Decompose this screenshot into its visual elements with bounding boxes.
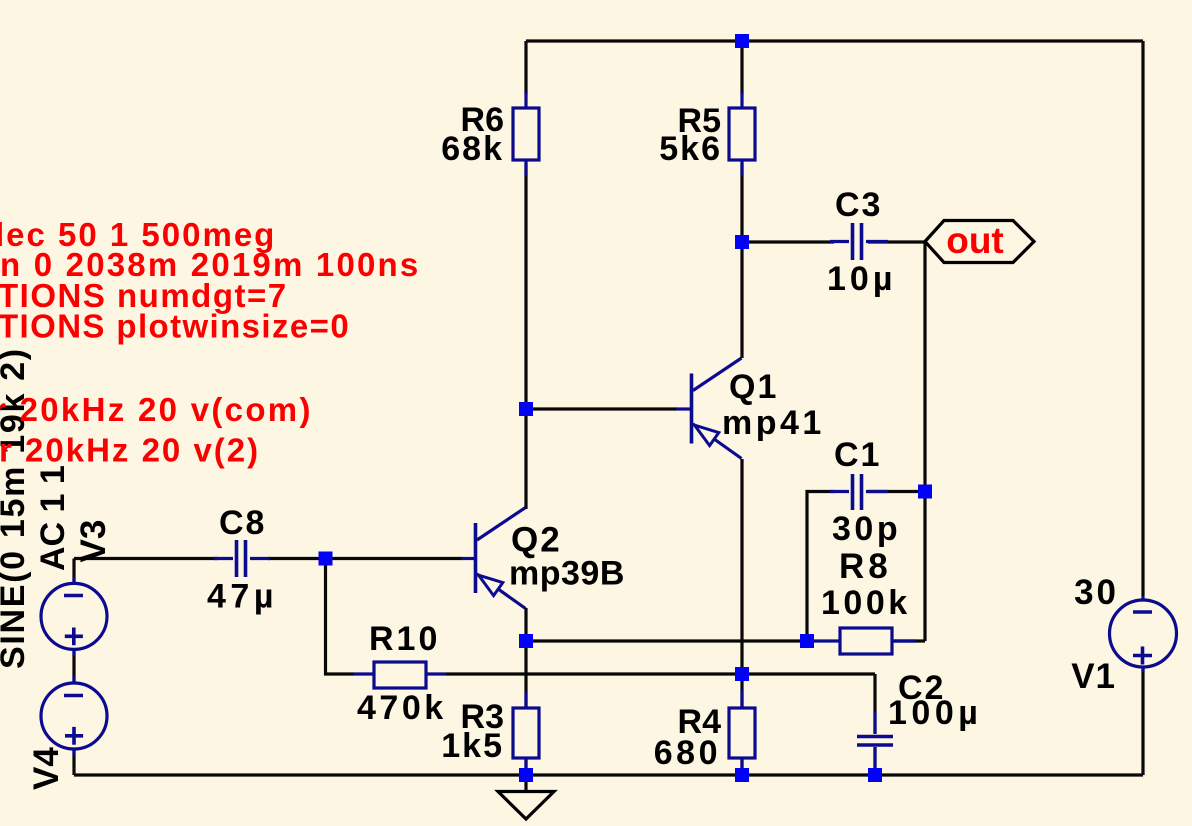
svg-text:r 20kHz 20 v(com): r 20kHz 20 v(com) [0, 391, 313, 428]
voltage source V1 [1110, 596, 1177, 672]
voltage source V3 [41, 577, 107, 656]
wire R6 top stub [524, 41, 527, 95]
svg-text:Q1: Q1 [729, 368, 778, 406]
node junction C1 right [918, 485, 932, 499]
wire R3 top [524, 641, 527, 708]
node junction top rail R5 [735, 34, 749, 48]
svg-text:AC 1 1: AC 1 1 [34, 465, 72, 571]
wire C1 right [868, 490, 925, 493]
capacitor C3 [830, 223, 888, 260]
svg-text:100k: 100k [821, 584, 911, 622]
wire Q2 emitter drop [524, 608, 527, 641]
svg-text:10µ: 10µ [827, 260, 896, 298]
svg-text:C3: C3 [835, 186, 882, 224]
node junction R6 base B1 [519, 402, 533, 416]
svg-text:1k5: 1k5 [441, 727, 504, 765]
wire ground stub [524, 775, 527, 791]
wire V3 top corner [72, 559, 75, 585]
node junction C2 ground [868, 768, 882, 782]
svg-text:5k6: 5k6 [659, 130, 722, 168]
voltage source V4 [41, 676, 107, 756]
resistor R8 [812, 628, 916, 654]
svg-text:TIONS plotwinsize=0: TIONS plotwinsize=0 [0, 308, 350, 345]
wire R4 top stub [740, 674, 743, 708]
port out [925, 220, 1034, 263]
capacitor C2 [857, 712, 893, 770]
svg-text:V1: V1 [1071, 657, 1116, 696]
wire R5 bottom to node C3row [740, 163, 743, 242]
wire Q1 emitter drop [740, 459, 743, 674]
resistor R6 [513, 92, 539, 176]
wire V4 to bottom rail [72, 748, 75, 775]
wire C8 node down to R10 row [326, 559, 355, 675]
node junction R4 ground [735, 768, 749, 782]
resistor R10 [354, 662, 446, 688]
resistor R4 [729, 690, 755, 772]
wire Q2 collector rise [524, 409, 527, 509]
wire top rail [526, 39, 1143, 42]
wire C2 bottom [873, 747, 876, 775]
wire V3 to V4 [72, 649, 75, 684]
node junction C8-base [319, 552, 333, 566]
svg-text:680: 680 [654, 734, 721, 772]
wire Q2 base from C8 node [326, 557, 463, 560]
resistor R5 [729, 92, 755, 176]
svg-text:100µ: 100µ [888, 694, 982, 732]
resistor R3 [513, 692, 539, 772]
wire R8 right [894, 639, 925, 642]
svg-text:470k: 470k [357, 689, 447, 727]
svg-text:mp39B: mp39B [509, 555, 625, 593]
svg-text:mp41: mp41 [722, 404, 825, 442]
wire R6 bottom to node B1 [524, 163, 527, 409]
wire R3 bottom [524, 758, 527, 775]
svg-text:68k: 68k [441, 130, 504, 168]
svg-text:r 20kHz 20 v(2): r 20kHz 20 v(2) [0, 432, 260, 469]
wire source to C8 [74, 557, 218, 560]
wire V1 top drop [1141, 41, 1144, 596]
svg-text:R10: R10 [369, 620, 440, 658]
wire R5 top stub [740, 41, 743, 95]
wire C3 right to out port [868, 240, 924, 243]
wire Q1 collector drop [740, 242, 743, 358]
svg-text:30p: 30p [832, 510, 901, 548]
wire C8 to node [268, 557, 326, 560]
svg-text:V4: V4 [27, 747, 66, 790]
wire out node drop [923, 242, 926, 641]
wire bottom rail [74, 773, 1143, 776]
wire V1 bottom [1141, 666, 1144, 775]
svg-text:C8: C8 [219, 504, 266, 542]
svg-text:V3: V3 [74, 520, 113, 563]
node junction R5 C3 [735, 235, 749, 249]
node junction Q2 emitter [519, 634, 533, 648]
wire C2 corner down [873, 674, 876, 734]
svg-text:47µ: 47µ [207, 578, 278, 616]
node junction R3 ground [519, 768, 533, 782]
wire R4 bottom [740, 758, 743, 775]
svg-text:R8: R8 [839, 547, 892, 586]
svg-text:30: 30 [1074, 573, 1119, 612]
svg-text:C1: C1 [834, 436, 881, 474]
capacitor C8 [214, 540, 270, 577]
wire Q1 base from node B1 [526, 407, 677, 410]
wire R10 to R4 node and C2 corner [446, 672, 875, 675]
capacitor C1 [830, 474, 888, 510]
ground [498, 792, 554, 820]
transistor Q1 [676, 358, 742, 459]
node junction R4 top [735, 667, 749, 681]
svg-text:out: out [946, 220, 1004, 261]
transistor Q2 [461, 508, 526, 609]
node junction R8 left [800, 634, 814, 648]
wire C3 left [742, 240, 834, 243]
wire C1 left loop [807, 492, 834, 642]
wire emitter feedback rail [526, 639, 807, 642]
